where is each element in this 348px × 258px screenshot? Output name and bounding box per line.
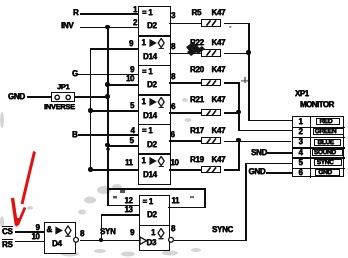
label D2 [147,81,157,89]
label D3 [147,239,157,247]
wire buf1 pin9 [90,48,138,50]
wire sync to pin5 [245,163,292,165]
wire feedback right vertical [204,188,206,208]
net BLUE [314,139,340,146]
op symbol =1 xor4 [143,198,153,206]
label INVERSE [44,103,75,111]
wire RS to pin10 [15,241,44,243]
pin 5 [130,137,134,145]
connector row dividers [292,127,345,129]
wire R21 right [224,112,240,114]
op symbol =1 xor3 [142,127,152,135]
wire out11 [168,207,206,209]
node GND [8,93,25,101]
wire B to pin4 [78,134,138,136]
pin 2 [299,128,303,136]
wire pin12 [107,205,139,207]
wire feedback top [107,188,206,190]
label MONITOR [300,101,334,109]
junction blue net [236,138,241,143]
connector pin column divider [310,116,312,178]
pin 13 [125,206,133,214]
resistor R5 [192,9,202,17]
junction JP1/INV bus [105,94,110,99]
label D14 [143,171,157,179]
resistor R21 [190,96,204,104]
pin 8 [171,225,175,233]
wire JP1 to INV bus [74,96,108,98]
node CS [2,226,13,236]
red arrow annotation [0,140,60,240]
resistor R19 [190,156,204,164]
pin 10 [171,159,179,167]
junction xor3 pin5 [105,143,110,148]
wire GND to JP1 [27,96,51,98]
wire buf2 pin5 [90,110,138,112]
wire CS to pin9 [15,231,44,233]
node GND [249,168,266,176]
net SYNC [314,159,342,166]
wire pin13 down to SYN [101,214,103,240]
pin 9 [129,40,133,48]
op symbol =1 xor2 [142,68,152,76]
junction green net [236,110,241,115]
wire bus1 vertical [90,48,92,171]
pin 10 [126,75,134,83]
pin 9 [130,66,134,74]
wire out8 to R20 [169,82,201,84]
node G [72,70,78,78]
label D14 [143,53,157,61]
pin 11 [172,197,179,205]
pin 5 [299,159,303,167]
wire sync vertical [245,163,247,241]
junction red net [246,50,251,55]
scan noise blob over R22 [185,41,209,57]
resistor R20 [190,66,204,74]
net RED [316,118,340,125]
pin 8 [171,43,175,51]
wire out10 to R19 [169,169,201,171]
wire stub xor3 pin5 [107,145,138,147]
wire red net to pin1 [248,120,292,122]
label D4 [52,240,62,248]
label D2 [147,211,157,219]
resistor R22 [190,39,204,47]
label D2 [147,141,157,149]
pin 9 [36,224,40,232]
op symbol buffer oc buf1 [142,39,146,47]
wire G to pin9 [78,74,138,76]
wire R20 right [224,82,240,84]
pin 12 [125,197,133,205]
wire out3 to R5 [169,23,201,25]
wire SYN D4 to D3 [80,240,139,242]
node RS [2,239,13,249]
wire R19 right [224,169,240,171]
wire out6 to R21 [169,112,201,114]
op symbol =1 xor1 [142,9,152,17]
node SND [251,149,267,157]
junction INV bus [105,25,110,30]
pin 5 [130,102,134,110]
pin 1 [299,118,303,126]
pin 10 [32,233,40,241]
wire R17 to pin3 [224,141,292,143]
net GND [315,169,340,176]
IC body xor4/D3 stack [139,195,170,251]
node INV [61,22,73,30]
wire out8 to R22 [169,53,201,55]
wire R22 right [224,53,250,55]
wire green net vertical [238,82,240,131]
pin 2 [133,19,137,27]
label D2 [147,22,157,30]
junction bus1 pin5 [88,108,93,113]
wire R to pin1 [80,13,138,15]
op symbol nand oc D4 [47,226,52,234]
pin 8 [80,230,84,238]
pin 3 [299,138,303,146]
wire out6 to R17 [169,140,201,142]
pin 1 [133,6,137,14]
pin 4 [299,149,303,157]
node B [72,131,77,139]
label D14 [143,112,157,120]
label XP1 [295,90,309,98]
pin 6 [299,169,303,177]
pin 6 [171,103,175,111]
net SOUND [312,149,343,156]
pin 8 [171,73,175,81]
pin 9 [130,229,134,237]
pin 4 [131,127,135,135]
jumper JP1 [51,92,75,103]
wire red net vertical [248,23,250,122]
wire green net to pin2 [238,130,292,132]
wire sync horizontal [174,240,246,242]
connector XP1 body [292,116,344,177]
junction pin10 [105,82,110,87]
junction SYN pin13 [99,238,104,243]
wire INV vertical bus [107,27,109,207]
wire SND to pin4 [267,152,292,154]
pin 6 [171,131,175,139]
op symbol buffer oc buf3 [142,157,146,165]
wire GND to pin6 [266,172,292,174]
resistor R17 [190,127,204,135]
op symbol buffer oc buf2 [142,98,146,106]
wire buf3 pin11 [90,169,138,171]
label JP1 [57,83,69,91]
label SYNC [212,226,233,234]
wire pin13 [101,214,139,216]
op symbol inverter oc D3 [139,236,149,246]
node R [73,9,78,17]
D4 output bubble [72,236,81,245]
gate D4 body [44,222,76,254]
IC body D2/D14 gate stack [138,6,171,185]
gate dividers [138,35,170,37]
wire INV to pin2 [80,27,138,29]
pin 3 [171,12,175,20]
gate divider [139,225,170,227]
pin 11 [125,159,132,167]
D3 output bubble [167,236,176,245]
wire R5 right [224,23,250,25]
label SYN [100,228,116,236]
junction bus1 pin11 [88,167,93,172]
net GREEN [313,128,344,135]
wire blue net vertical [238,140,240,171]
wire stub pin10 [107,84,138,86]
